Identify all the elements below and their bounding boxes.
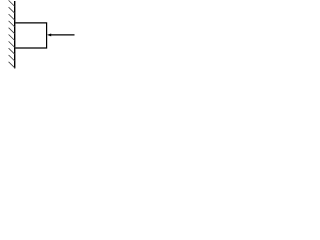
wall bbox=[14, 1, 16, 68]
hatch 10 bbox=[9, 62, 15, 68]
force arrow shaft bbox=[51, 34, 75, 36]
block bbox=[15, 23, 46, 48]
hatch 6 bbox=[9, 35, 15, 41]
hatch 7 bbox=[9, 41, 15, 47]
hatch 4 bbox=[9, 21, 15, 27]
hatch 2 bbox=[9, 7, 15, 13]
hatch 5 bbox=[9, 28, 15, 34]
hatch 1 bbox=[9, 0, 15, 6]
force arrow head bbox=[47, 33, 51, 36]
hatch 9 bbox=[9, 55, 15, 61]
hatch 8 bbox=[9, 48, 15, 54]
hatch 3 bbox=[9, 14, 15, 20]
